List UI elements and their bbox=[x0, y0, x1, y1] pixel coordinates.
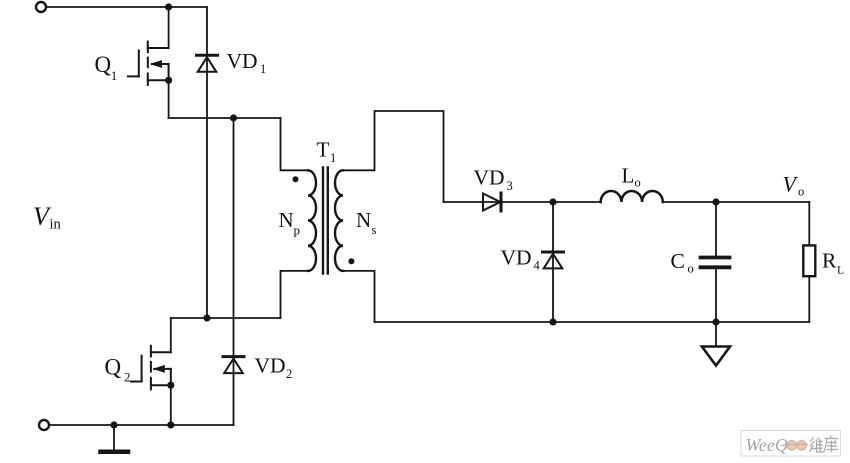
svg-text:V: V bbox=[783, 172, 799, 197]
wire Q1 drain bbox=[168, 7, 170, 48]
wire bottom rail bbox=[50, 424, 234, 426]
svg-text:L: L bbox=[622, 163, 635, 187]
wire secondary top lead bbox=[343, 111, 444, 202]
node bottom-rail Q2 junction bbox=[167, 421, 174, 428]
svg-text:VD: VD bbox=[227, 49, 258, 73]
wire Q2 source to bottom rail bbox=[170, 385, 172, 425]
svg-text:o: o bbox=[635, 176, 641, 190]
svg-text:C: C bbox=[671, 249, 685, 273]
wire top rail bbox=[47, 6, 208, 8]
phase dot secondary bbox=[348, 258, 354, 264]
inductor Lo bbox=[601, 191, 663, 202]
svg-text:in: in bbox=[50, 217, 62, 233]
input terminal bottom bbox=[39, 420, 49, 430]
wire node Y horizontal bbox=[171, 317, 281, 319]
svg-text:4: 4 bbox=[534, 259, 541, 273]
svg-text:3: 3 bbox=[507, 179, 513, 193]
wire Q1 source to node X bbox=[168, 80, 170, 118]
svg-text:o: o bbox=[688, 262, 694, 276]
wire secondary bottom rail bbox=[375, 321, 810, 323]
svg-text:2: 2 bbox=[124, 370, 131, 385]
svg-text:o: o bbox=[798, 185, 804, 199]
wire output rail after inductor bbox=[663, 201, 810, 203]
svg-text:N: N bbox=[279, 208, 294, 232]
diode VD3 bbox=[483, 193, 501, 211]
node X junction dot bbox=[230, 114, 237, 121]
diode VD4 bbox=[543, 252, 564, 268]
node Q1 source dot bbox=[165, 77, 172, 84]
wire primary bottom to node Y bbox=[281, 271, 309, 318]
svg-text:1: 1 bbox=[260, 62, 266, 76]
node Co top junction bbox=[712, 198, 719, 205]
transformer T1 secondary winding Ns bbox=[335, 170, 343, 271]
svg-text:VD: VD bbox=[501, 246, 532, 270]
svg-text:VD: VD bbox=[255, 353, 286, 377]
watermark WeeQoo box bbox=[741, 431, 841, 457]
transistor Q1 bbox=[128, 42, 169, 86]
capacitor Co bbox=[715, 202, 717, 256]
svg-text:1: 1 bbox=[111, 68, 118, 83]
transistor Q2 bbox=[131, 346, 171, 390]
node VD4 bottom junction bbox=[549, 318, 556, 325]
svg-text:R: R bbox=[822, 248, 837, 272]
svg-text:s: s bbox=[372, 223, 377, 237]
wire VD2 column bbox=[233, 118, 235, 425]
transformer T1 primary winding Np bbox=[308, 170, 316, 271]
node Co bottom junction bbox=[712, 318, 719, 325]
wire output rail to VD3 bbox=[444, 201, 601, 203]
transformer core bars bbox=[322, 168, 324, 274]
wire node X horizontal bbox=[169, 117, 281, 119]
svg-text:N: N bbox=[356, 208, 371, 232]
wire VD1 column bbox=[206, 7, 208, 318]
resistor RL bbox=[808, 202, 810, 245]
wire VD4 column bbox=[552, 202, 554, 322]
svg-text:2: 2 bbox=[286, 367, 292, 381]
diode VD2 bbox=[223, 357, 244, 374]
node Q2 source dot bbox=[167, 382, 174, 389]
svg-text:1: 1 bbox=[330, 151, 336, 165]
ground (output side) bbox=[715, 322, 717, 347]
diode VD1 bbox=[197, 55, 218, 72]
node VD3 cathode junction bbox=[549, 198, 556, 205]
node Y junction dot bbox=[203, 314, 210, 321]
ground (input side) bbox=[113, 425, 115, 450]
svg-text:VD: VD bbox=[474, 166, 505, 190]
wire secondary bottom lead bbox=[343, 271, 375, 322]
input terminal top bbox=[36, 2, 46, 12]
phase dot primary bbox=[293, 176, 299, 182]
wire node X to primary top bbox=[281, 118, 309, 170]
svg-text:Q: Q bbox=[105, 355, 122, 380]
svg-text:p: p bbox=[294, 223, 301, 238]
wire Q2 drain bbox=[170, 318, 172, 352]
svg-text:T: T bbox=[317, 138, 330, 162]
svg-text:L: L bbox=[837, 265, 844, 277]
svg-text:Q: Q bbox=[95, 52, 112, 77]
node top-rail junction bbox=[165, 3, 172, 10]
node bottom-rail ground junction bbox=[110, 421, 117, 428]
